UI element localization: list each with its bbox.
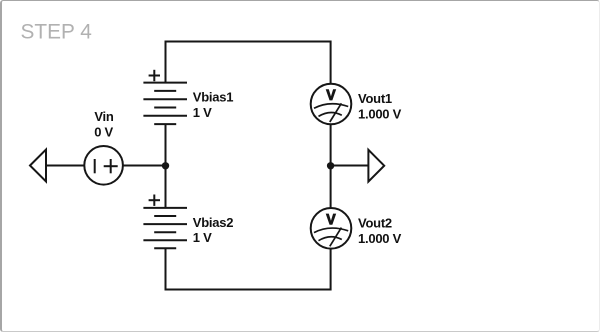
voltmeter Vout1 (311, 84, 352, 125)
label Vout2 1.000 V (358, 216, 402, 246)
label Vbias1 1 V (193, 90, 233, 121)
wire node B to output arrow (331, 165, 369, 167)
wire arrow to Vin (46, 165, 85, 167)
voltmeter Vout2 (311, 208, 352, 249)
node B junction dot (327, 162, 334, 169)
wire node A vertical (Vbias1 to Vbias2) (165, 124, 167, 208)
input terminal arrow (left) (30, 150, 46, 182)
label Vbias2 1 V (193, 215, 233, 245)
label Vin 0 V (94, 109, 114, 139)
label Vout1 1.000 V (358, 91, 402, 121)
wire node B to Vout2 (330, 166, 332, 209)
battery Vbias2 (143, 195, 187, 249)
wire Vout1 to node B (330, 124, 332, 165)
voltage source Vin (circle symbol) (84, 146, 123, 185)
output terminal arrow (right) (368, 150, 384, 182)
node A junction dot (162, 162, 169, 169)
wire Vin to node A (123, 165, 166, 167)
battery Vbias1 (143, 70, 187, 124)
wire Vbias1 top to Vout1 top (across top) (166, 42, 331, 85)
wire Vbias2 bottom along bottom to Vout2 bottom (166, 248, 331, 289)
